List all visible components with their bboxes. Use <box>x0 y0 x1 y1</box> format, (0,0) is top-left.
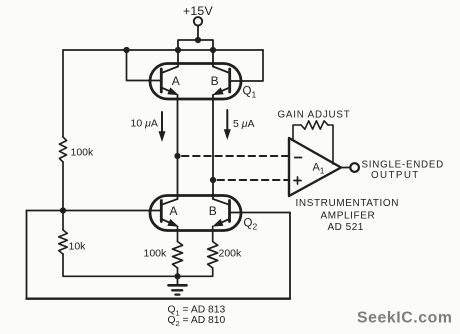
wire Q1A base lead <box>127 50 162 81</box>
node base bias junction <box>60 207 66 213</box>
svg-text:Q1: Q1 <box>243 86 257 100</box>
svg-text:AD 521: AD 521 <box>328 222 364 233</box>
op-amp minus input mark <box>295 157 302 159</box>
wire dashed to minus input <box>182 155 289 157</box>
wire bottom bus <box>27 298 291 300</box>
wire outer left rail <box>26 211 28 299</box>
wire Q1B base lead <box>230 50 263 81</box>
wire Q2B emitter drop <box>212 226 214 241</box>
resistor 10k <box>59 230 68 254</box>
svg-text:INSTRUMENTATION: INSTRUMENTATION <box>296 198 400 209</box>
wire 200k bottom <box>178 268 213 276</box>
transistor Q2B <box>213 199 230 226</box>
current arrow 10uA <box>159 112 165 141</box>
svg-text:10 μA: 10 μA <box>131 118 158 130</box>
svg-text:GAIN ADJUST: GAIN ADJUST <box>278 110 351 121</box>
svg-text:200k: 200k <box>219 248 243 260</box>
node ground junction <box>174 273 180 279</box>
node supply junction <box>195 37 201 43</box>
ground <box>169 276 187 294</box>
wire output lead <box>341 167 350 169</box>
transistor pair Q1 outline <box>150 64 241 100</box>
transistor Q1B <box>213 50 230 95</box>
transistor Q1A <box>161 50 178 95</box>
transistor pair Q2 outline <box>150 196 241 231</box>
power terminal +15V <box>194 17 202 40</box>
node roof left <box>175 47 181 53</box>
svg-text:100k: 100k <box>71 147 95 159</box>
wire supply roof <box>178 40 213 50</box>
svg-text:SINGLE-ENDED: SINGLE-ENDED <box>362 160 445 171</box>
wire right column <box>212 95 214 199</box>
resistor 200k <box>208 242 218 269</box>
svg-text:+15V: +15V <box>183 4 213 18</box>
svg-text:10k: 10k <box>69 241 87 253</box>
wire Q2B base lead <box>230 212 291 214</box>
svg-text:SeekIC.com: SeekIC.com <box>357 310 453 327</box>
wire base bus <box>27 210 162 212</box>
node roof right <box>210 47 216 53</box>
svg-text:B: B <box>211 74 219 88</box>
op-amp A1 triangle <box>289 138 341 196</box>
transistor Q2A <box>161 199 178 226</box>
wire Q2A emitter drop <box>177 226 179 241</box>
output terminal <box>350 163 359 172</box>
svg-text:A1: A1 <box>313 162 325 176</box>
current arrow 5uA <box>224 110 230 139</box>
node minus tap <box>174 153 180 159</box>
wire left rail lower <box>62 162 64 211</box>
wire top rail <box>63 49 263 51</box>
svg-text:B: B <box>209 204 217 218</box>
node Q1A base tap <box>123 47 129 53</box>
resistor 100k lower <box>173 242 183 269</box>
svg-text:5 μA: 5 μA <box>233 118 255 130</box>
wire left rail top <box>62 50 64 137</box>
resistor gain adjust <box>293 121 333 164</box>
svg-text:100k: 100k <box>144 248 168 260</box>
op-amp plus input mark <box>294 177 301 184</box>
wire 10k bottom <box>63 254 178 276</box>
wire outer right rail <box>289 213 291 299</box>
wire 10k top <box>62 211 64 231</box>
wire left column <box>177 95 179 199</box>
wire dashed to plus input <box>218 179 290 181</box>
svg-text:A: A <box>172 74 180 88</box>
node plus tap <box>210 177 216 183</box>
resistor 100k upper <box>59 137 66 162</box>
svg-text:OUTPUT: OUTPUT <box>371 170 420 181</box>
wire 100k lower bottom <box>177 268 179 276</box>
svg-text:AMPLIFER: AMPLIFER <box>321 211 376 222</box>
svg-text:A: A <box>170 204 178 218</box>
svg-text:Q2: Q2 <box>244 218 258 232</box>
